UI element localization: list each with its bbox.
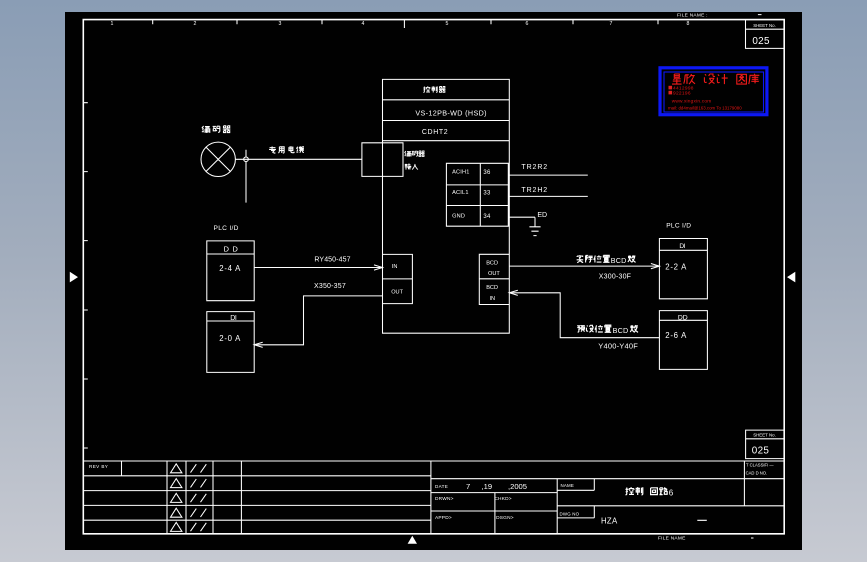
svg-text:TR2R2: TR2R2 bbox=[521, 164, 548, 171]
svg-text:4412998: 4412998 bbox=[673, 86, 694, 92]
svg-text:ACIL1: ACIL1 bbox=[452, 190, 469, 196]
svg-text:1: 1 bbox=[111, 21, 114, 27]
svg-text:DRWN>: DRWN> bbox=[435, 496, 454, 502]
svg-text:36: 36 bbox=[483, 170, 491, 176]
svg-text:BCD: BCD bbox=[486, 285, 498, 291]
svg-text:FILE NAME: FILE NAME bbox=[658, 535, 686, 541]
svg-text:IN: IN bbox=[392, 264, 398, 270]
svg-text:BCD: BCD bbox=[613, 326, 629, 335]
svg-text:BCD: BCD bbox=[486, 260, 498, 266]
svg-text:922196: 922196 bbox=[673, 91, 691, 97]
svg-text:PLC I/D: PLC I/D bbox=[214, 225, 239, 232]
svg-text:TR2H2: TR2H2 bbox=[521, 187, 548, 194]
svg-text:7: 7 bbox=[610, 21, 613, 27]
svg-text:mail: dd4mail@163.com To 1317: mail: dd4mail@163.com To 13179080 bbox=[668, 105, 742, 110]
svg-text:RY450-457: RY450-457 bbox=[314, 257, 350, 264]
svg-text:REV BY: REV BY bbox=[89, 464, 108, 469]
svg-text:2-6 A: 2-6 A bbox=[665, 331, 687, 340]
svg-text:DI: DI bbox=[679, 243, 685, 250]
svg-text:2-0 A: 2-0 A bbox=[219, 334, 241, 343]
svg-text:VS-12PB-WD (HSD): VS-12PB-WD (HSD) bbox=[415, 108, 487, 117]
svg-text:4: 4 bbox=[362, 21, 365, 27]
svg-text:OUT: OUT bbox=[391, 290, 403, 296]
svg-text:CDHT2: CDHT2 bbox=[422, 129, 448, 136]
svg-text:PLC I/D: PLC I/D bbox=[666, 222, 691, 229]
svg-text:Y400-Y40F: Y400-Y40F bbox=[598, 341, 638, 350]
svg-text:025: 025 bbox=[752, 446, 770, 457]
svg-text:BCD: BCD bbox=[611, 256, 627, 265]
svg-text:2: 2 bbox=[85, 322, 88, 327]
svg-text:APPD>: APPD> bbox=[435, 515, 452, 521]
svg-text:1: 1 bbox=[85, 396, 88, 401]
svg-text:DWG NO: DWG NO bbox=[560, 511, 580, 516]
svg-text:ACIH1: ACIH1 bbox=[452, 170, 469, 176]
svg-text:T CLASSIFI —: T CLASSIFI — bbox=[746, 463, 774, 468]
svg-text:3: 3 bbox=[85, 136, 88, 141]
svg-text:NAME: NAME bbox=[561, 483, 575, 488]
svg-text:6: 6 bbox=[526, 21, 529, 27]
svg-text:025: 025 bbox=[752, 36, 770, 47]
svg-text:GND: GND bbox=[452, 214, 465, 220]
svg-text:CHKD>: CHKD> bbox=[494, 496, 511, 502]
svg-text:DSGN>: DSGN> bbox=[496, 515, 514, 521]
svg-text:www.xingxin.com: www.xingxin.com bbox=[672, 98, 712, 104]
svg-text:CAD D NO.: CAD D NO. bbox=[746, 471, 768, 476]
svg-text:5: 5 bbox=[446, 21, 449, 27]
svg-text:1: 1 bbox=[85, 430, 88, 435]
svg-text:FILE NAME :: FILE NAME : bbox=[677, 12, 708, 18]
svg-text:HZA: HZA bbox=[601, 516, 618, 525]
svg-text:2-4 A: 2-4 A bbox=[219, 264, 241, 273]
svg-text:OUT: OUT bbox=[488, 271, 500, 277]
svg-text:,19: ,19 bbox=[482, 482, 493, 491]
svg-text:2: 2 bbox=[194, 21, 197, 27]
svg-text:33: 33 bbox=[483, 190, 491, 196]
svg-text:ED: ED bbox=[537, 212, 547, 219]
svg-text:SHEET No.: SHEET No. bbox=[753, 433, 776, 438]
svg-text:X300-30F: X300-30F bbox=[599, 274, 631, 281]
svg-text:34: 34 bbox=[483, 214, 491, 220]
svg-text:DI: DI bbox=[230, 315, 237, 322]
svg-text:,2005: ,2005 bbox=[508, 482, 527, 491]
svg-text:2: 2 bbox=[85, 359, 88, 364]
svg-text:3: 3 bbox=[85, 204, 88, 209]
svg-text:7: 7 bbox=[466, 482, 470, 491]
svg-text:3: 3 bbox=[279, 21, 282, 27]
svg-text:6: 6 bbox=[669, 488, 674, 497]
svg-text:SHEET No.: SHEET No. bbox=[753, 23, 776, 28]
svg-text:4: 4 bbox=[85, 58, 88, 63]
svg-text:X350-357: X350-357 bbox=[314, 283, 346, 290]
svg-text:DD: DD bbox=[678, 314, 688, 321]
svg-text:IN: IN bbox=[490, 296, 496, 302]
svg-text:8: 8 bbox=[687, 21, 690, 27]
svg-text:DATE: DATE bbox=[435, 484, 448, 489]
svg-text:DD: DD bbox=[224, 244, 242, 253]
svg-text:2-2 A: 2-2 A bbox=[665, 262, 687, 271]
